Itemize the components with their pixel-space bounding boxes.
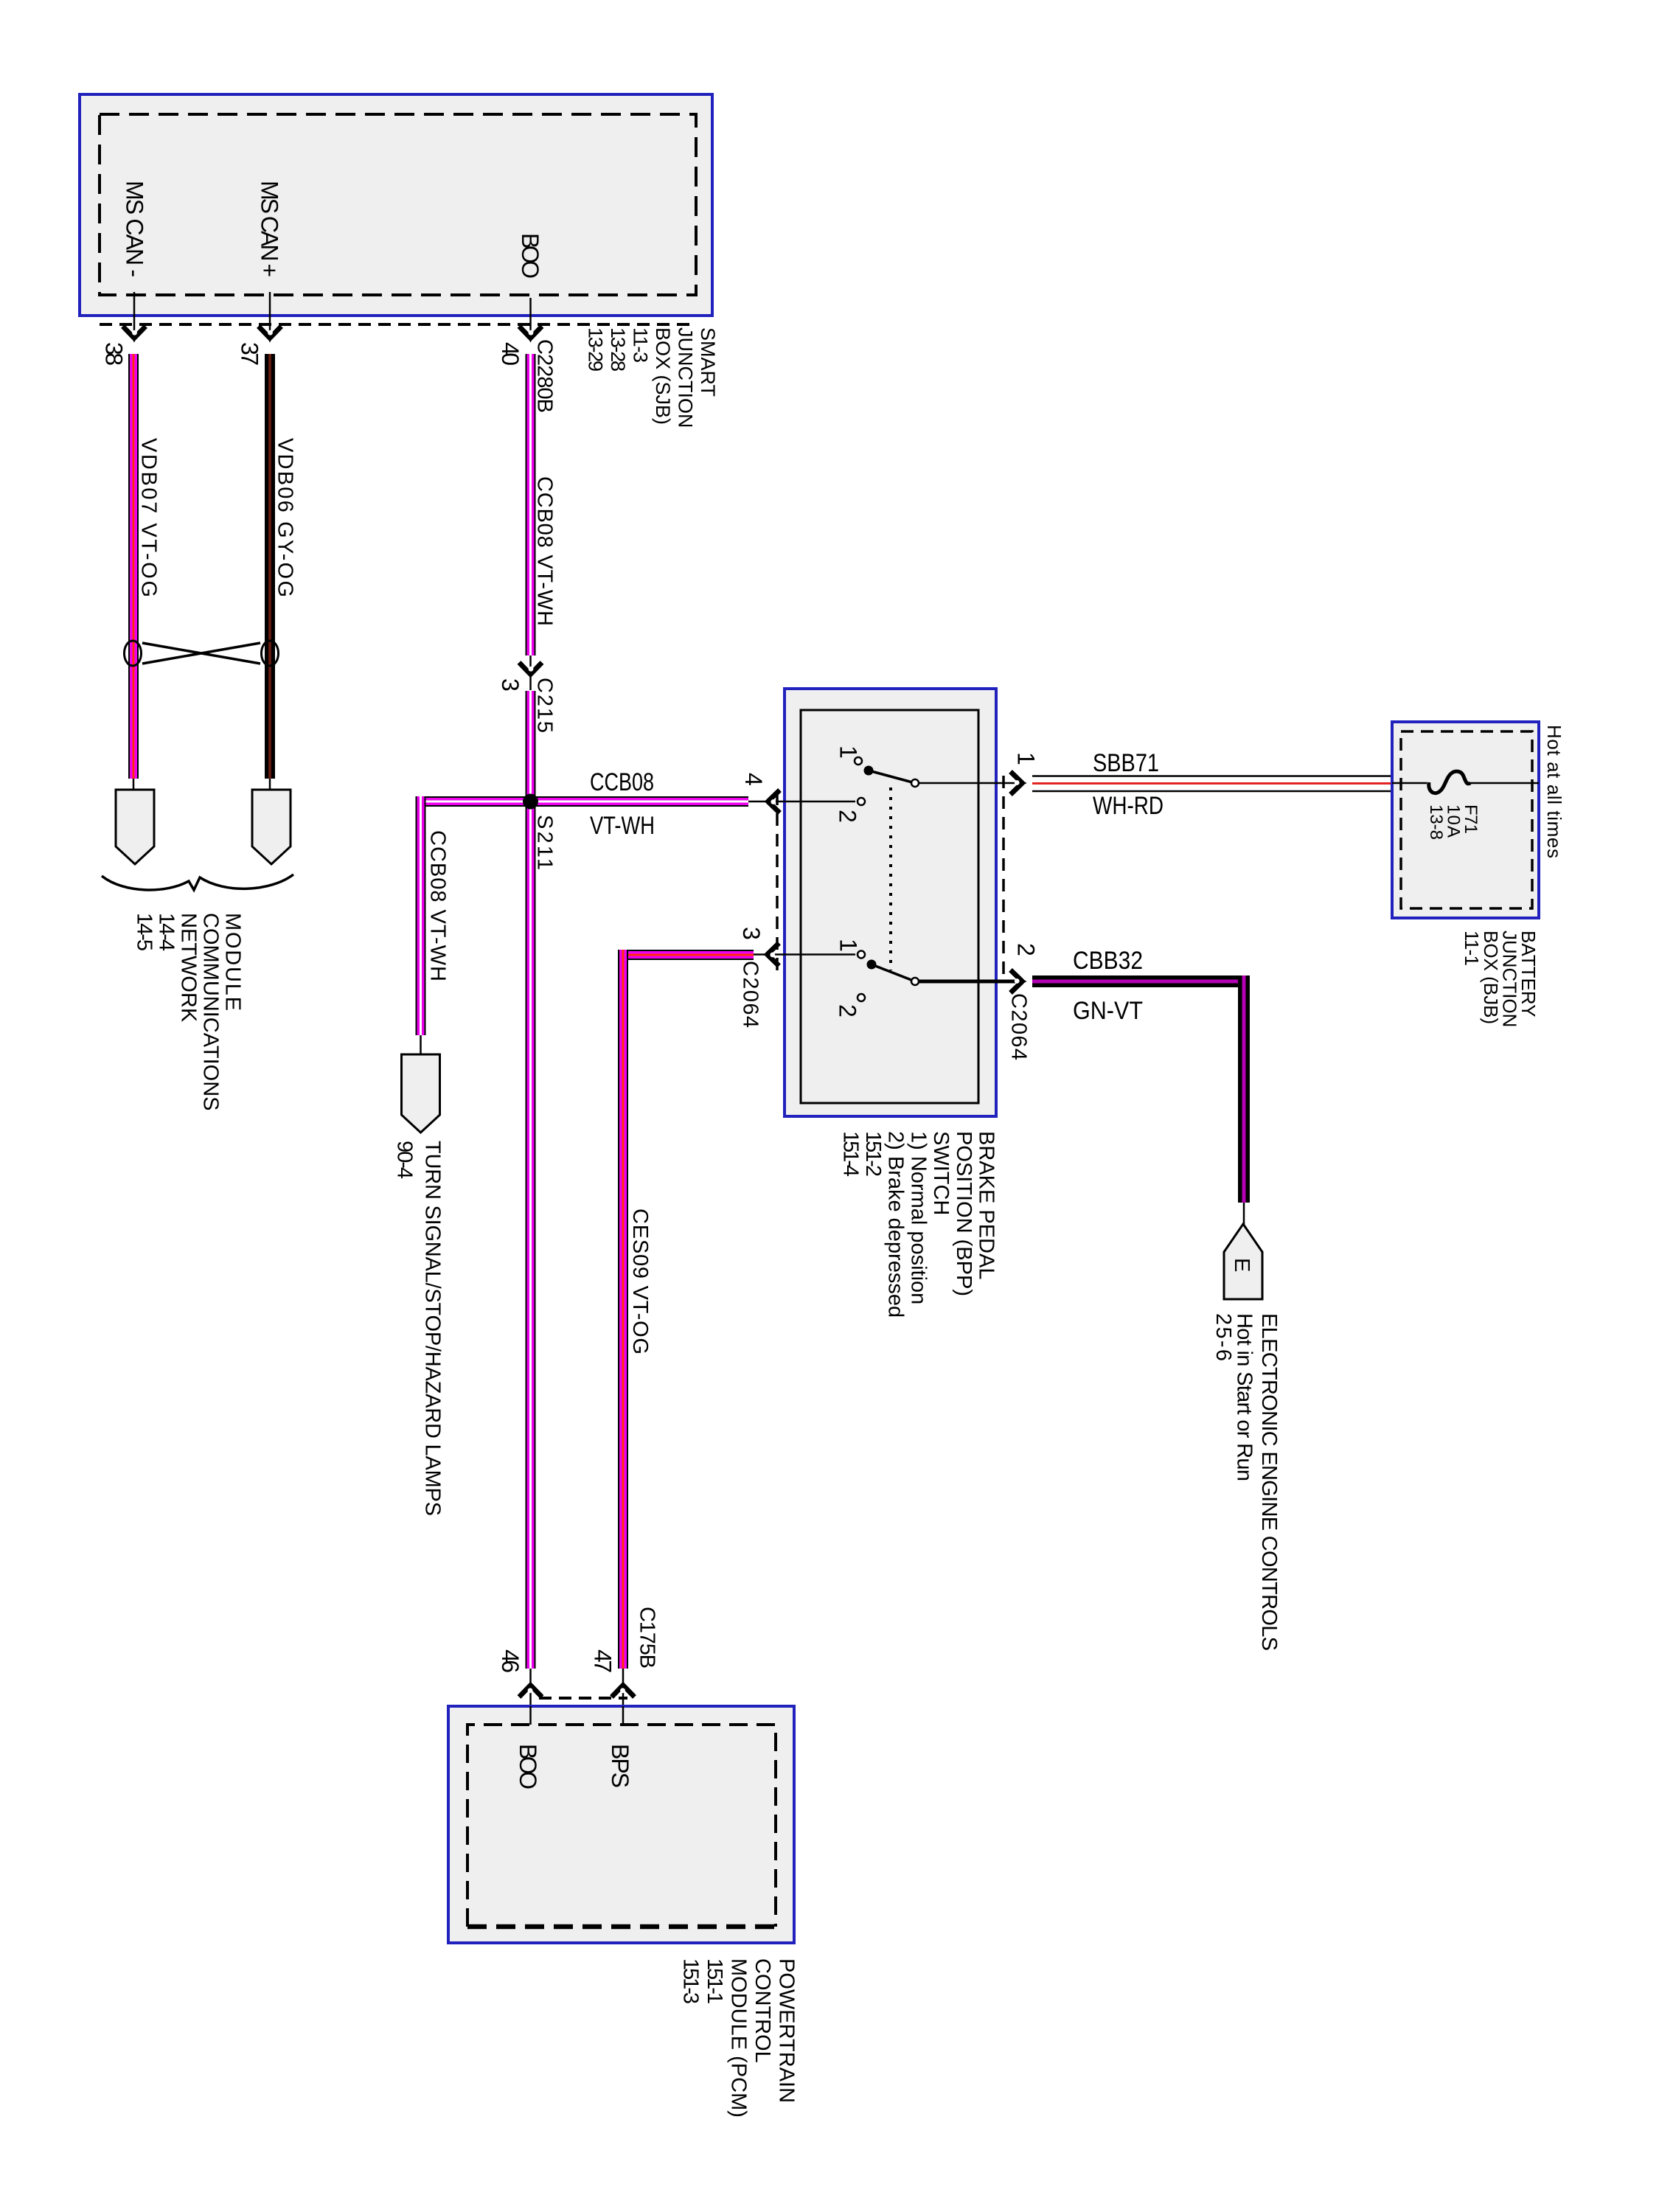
svg-text:CBB32: CBB32 [1073, 947, 1143, 975]
svg-text:3: 3 [738, 927, 765, 940]
svg-text:2: 2 [835, 1004, 861, 1018]
wire CBB32 GN-VT horizontal [1032, 975, 1250, 987]
svg-text:E: E [1230, 1258, 1253, 1272]
connector pentagon E [1224, 1224, 1262, 1299]
SJB name label [584, 327, 719, 428]
wire SBB71 WH-RD [1032, 776, 1392, 792]
BJB name label [1461, 931, 1540, 1027]
svg-text:90-4: 90-4 [393, 1141, 417, 1179]
lead line pin 47 [622, 1669, 625, 1706]
svg-text:VT-WH: VT-WH [590, 812, 655, 840]
twisted pair symbol [125, 641, 279, 666]
svg-text:11-3: 11-3 [629, 327, 651, 363]
wire CCB08 segment 2 [526, 691, 536, 1669]
lead line to connector (right) [269, 779, 271, 790]
lead line pin 46 [529, 1669, 532, 1706]
svg-text:13-29: 13-29 [584, 327, 606, 372]
lead line at C215 [529, 655, 532, 690]
pin stub 46 inside [529, 1706, 532, 1725]
svg-text:VDB07 VT-OG: VDB07 VT-OG [137, 438, 161, 597]
fuse line [1392, 782, 1539, 785]
svg-text:C2064: C2064 [739, 961, 762, 1028]
svg-text:25-6: 25-6 [1211, 1313, 1235, 1361]
TURN SIGNAL label [393, 1141, 445, 1516]
svg-text:38: 38 [101, 342, 128, 366]
svg-text:SWITCH: SWITCH [929, 1131, 953, 1215]
svg-text:JUNCTION: JUNCTION [674, 327, 696, 428]
svg-text:BPS: BPS [607, 1744, 633, 1788]
upper common line to pin 1 [919, 782, 1015, 785]
pin line 37 [269, 292, 271, 338]
svg-text:BOO: BOO [517, 233, 543, 279]
svg-text:BOX (SJB): BOX (SJB) [652, 327, 674, 425]
pin arrow 37 [259, 327, 282, 343]
pin 3 lead from wire [754, 953, 855, 956]
svg-text:46: 46 [497, 1649, 524, 1673]
svg-text:37: 37 [237, 342, 263, 366]
svg-text:NETWORK: NETWORK [177, 913, 201, 1023]
lower switch pivot dot [867, 960, 877, 970]
svg-text:BOO: BOO [515, 1744, 541, 1790]
PCM name label [679, 1958, 799, 2118]
svg-text:151-2: 151-2 [861, 1131, 885, 1177]
svg-text:MODULE (PCM): MODULE (PCM) [727, 1958, 751, 2118]
wire CES09 vertical [618, 950, 628, 1669]
arrow pin 4 (left) [764, 790, 780, 813]
svg-text:1: 1 [1013, 752, 1040, 765]
svg-text:VDB06 GY-OG: VDB06 GY-OG [274, 438, 297, 597]
svg-text:CCB08 VT-WH: CCB08 VT-WH [533, 476, 557, 626]
svg-text:1) Normal position: 1) Normal position [906, 1131, 930, 1304]
svg-text:4: 4 [740, 773, 767, 786]
svg-text:2: 2 [835, 810, 861, 823]
svg-text:ELECTRONIC ENGINE CONTROLS: ELECTRONIC ENGINE CONTROLS [1257, 1313, 1281, 1651]
svg-text:BRAKE PEDAL: BRAKE PEDAL [975, 1131, 998, 1279]
arrow pin 2 (right) [1011, 970, 1027, 993]
connector pentagon (MS CAN +) [252, 790, 291, 864]
fuse label F71 10A 13-8 [1426, 804, 1481, 840]
pin line 38 [133, 292, 136, 338]
pin stub 47 inside [622, 1706, 625, 1725]
svg-text:13-28: 13-28 [607, 327, 629, 372]
lower contact 2 [858, 994, 865, 1001]
fuse F71 element [1429, 771, 1470, 793]
lead line to connector (left) [133, 779, 135, 790]
svg-text:CONTROL: CONTROL [751, 1958, 774, 2063]
svg-text:MS CAN +: MS CAN + [257, 181, 283, 277]
brake pedal position switch outline [777, 689, 1004, 1116]
svg-text:14-4: 14-4 [155, 913, 178, 951]
arrow pin 3 (left) [763, 943, 779, 966]
svg-text:POWERTRAIN: POWERTRAIN [775, 1958, 799, 2103]
upper switch blade [869, 771, 915, 783]
arrow pin 46 (up) [519, 1681, 542, 1697]
svg-text:Hot at all times: Hot at all times [1543, 725, 1565, 858]
svg-text:TURN SIGNAL/STOP/HAZARD LAMPS: TURN SIGNAL/STOP/HAZARD LAMPS [421, 1141, 445, 1516]
svg-text:SMART: SMART [697, 327, 719, 397]
svg-text:1: 1 [835, 939, 862, 952]
svg-text:GN-VT: GN-VT [1073, 997, 1143, 1025]
svg-text:MODULE: MODULE [221, 913, 245, 1011]
powertrain control module PCM outline [448, 1706, 794, 1943]
arrow pin 1 (right) [1011, 772, 1027, 795]
lower switch blade [872, 964, 915, 981]
circuit break marks [102, 874, 293, 890]
svg-text:WH-RD: WH-RD [1093, 792, 1164, 820]
svg-text:MS CAN -: MS CAN - [122, 181, 148, 277]
svg-text:14-5: 14-5 [133, 913, 156, 951]
pin arrow 40 [519, 327, 542, 343]
svg-text:C175B: C175B [636, 1607, 659, 1669]
MODULE COMMUNICATIONS NETWORK label [133, 913, 245, 1111]
svg-text:CCB08: CCB08 [590, 768, 654, 796]
upper switch pivot dot [864, 766, 874, 776]
ELECTRONIC ENGINE CONTROLS label [1211, 1313, 1281, 1651]
svg-text:C2280B: C2280B [533, 339, 557, 413]
svg-text:1: 1 [835, 745, 862, 759]
BPP name label [838, 1131, 998, 1318]
svg-text:2) Brake depressed: 2) Brake depressed [884, 1131, 908, 1318]
wire VDB07 VT-OG [128, 354, 139, 779]
svg-text:151-1: 151-1 [703, 1958, 726, 2004]
svg-text:SBB71: SBB71 [1093, 749, 1159, 777]
lower switch common [911, 978, 919, 985]
svg-text:COMMUNICATIONS: COMMUNICATIONS [199, 913, 223, 1111]
upper switch common [911, 779, 919, 787]
svg-text:CCB08 VT-WH: CCB08 VT-WH [426, 830, 450, 981]
wire CBB32 GN-VT vertical [1238, 975, 1250, 1203]
lead line to E connector [1243, 1203, 1245, 1228]
svg-text:151-3: 151-3 [679, 1958, 703, 2004]
upper switch contact 1 [855, 757, 862, 765]
svg-text:C215: C215 [533, 678, 557, 733]
battery junction box outline [1392, 722, 1539, 918]
mechanical link dotted [889, 787, 892, 970]
wire CES09 horizontal [618, 950, 754, 960]
arrow pin 47 (up) [612, 1681, 635, 1697]
svg-text:Hot in Start or Run: Hot in Start or Run [1233, 1313, 1256, 1481]
svg-text:13-8: 13-8 [1426, 804, 1446, 840]
svg-text:CES09 VT-OG: CES09 VT-OG [628, 1208, 652, 1354]
svg-text:3: 3 [497, 678, 524, 692]
lower switch contact 1 [858, 951, 865, 959]
lead line to lamps connector [420, 1035, 422, 1054]
connector pentagon (turn signal) [402, 1054, 440, 1133]
wire VDB06 GY-OG [265, 354, 275, 779]
svg-text:S211: S211 [533, 815, 557, 870]
svg-text:11-1: 11-1 [1461, 931, 1483, 966]
svg-text:40: 40 [497, 342, 524, 366]
pin arrow 38 [123, 327, 146, 343]
wire CCB08 branch vertical [416, 796, 426, 1035]
lower common line to pin 2 [919, 980, 1015, 984]
svg-text:2: 2 [1013, 943, 1040, 956]
splice S211 junction dot [523, 794, 538, 810]
svg-text:POSITION (BPP): POSITION (BPP) [952, 1131, 975, 1296]
wire CCB08 segment 1 [526, 354, 536, 655]
wire CCB08 branch horizontal [416, 796, 749, 807]
connector C2280B dashed line [100, 323, 696, 326]
connector arrow C215 [519, 663, 542, 679]
connector C175B dashed line [539, 1697, 627, 1700]
svg-text:C2064: C2064 [1007, 993, 1031, 1060]
smart junction box SJB outline [80, 94, 712, 316]
pin 4 lead from wire [748, 801, 855, 803]
connector pentagon (MS CAN -) [116, 790, 154, 864]
pin line 40 [529, 298, 532, 338]
svg-text:151-4: 151-4 [838, 1131, 862, 1177]
upper contact 2 [858, 798, 865, 805]
svg-text:47: 47 [590, 1649, 616, 1673]
